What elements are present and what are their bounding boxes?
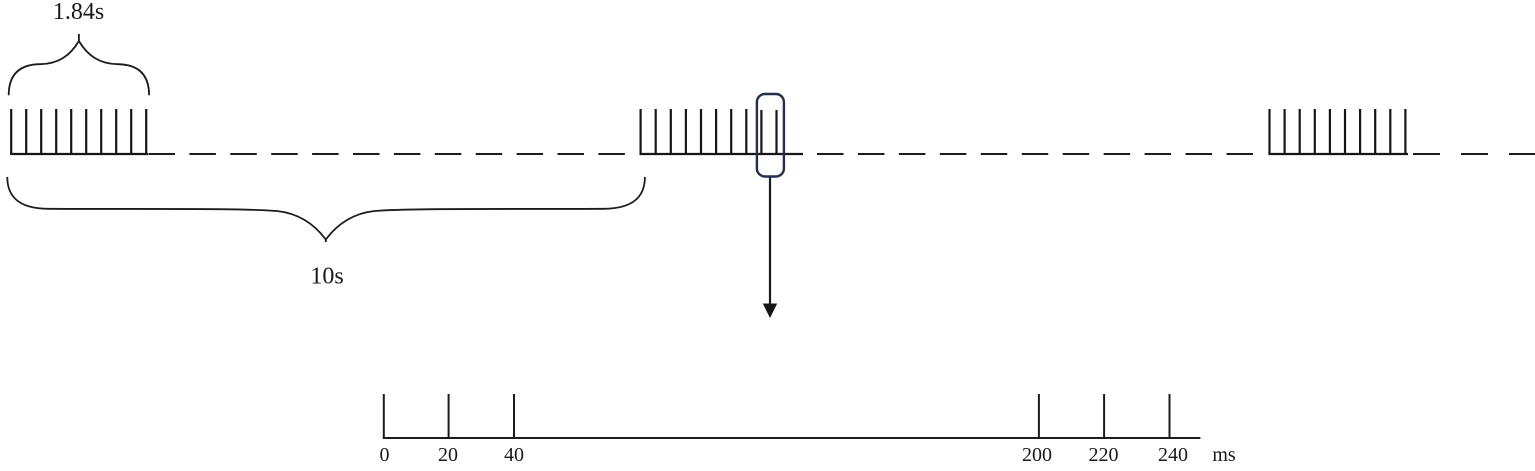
svg-text:220: 220: [1089, 444, 1119, 466]
svg-text:0: 0: [380, 444, 390, 466]
svg-text:200: 200: [1022, 444, 1052, 466]
burst 2 pulses: [641, 109, 777, 154]
trailing dashed segment to right edge: [1413, 153, 1535, 155]
highlight rounded rectangle around last pulse of burst 2: [757, 94, 784, 177]
dashed segment between burst 1 and burst 2: [149, 153, 639, 155]
burst 3 pulses: [1270, 109, 1406, 154]
svg-text:10s: 10s: [310, 264, 343, 290]
burst 1 pulses: [11, 109, 146, 154]
svg-text:ms: ms: [1212, 444, 1236, 466]
arrowhead: [763, 304, 777, 319]
top curly brace over first burst: [9, 34, 149, 95]
svg-text:1.84s: 1.84s: [53, 0, 104, 25]
svg-text:20: 20: [438, 444, 458, 466]
burst 1 baseline: [10, 153, 148, 155]
svg-text:40: 40: [504, 444, 524, 466]
burst 2 baseline: [640, 153, 804, 155]
arrow from rectangle down: [769, 178, 771, 306]
bottom curly brace spanning 10s: [7, 177, 645, 242]
time axis line: [383, 437, 1201, 439]
axis ticks: [384, 394, 1170, 438]
svg-text:240: 240: [1158, 444, 1188, 466]
burst 3 baseline: [1268, 153, 1408, 155]
dashed segment between burst 2 and burst 3: [817, 153, 1266, 155]
